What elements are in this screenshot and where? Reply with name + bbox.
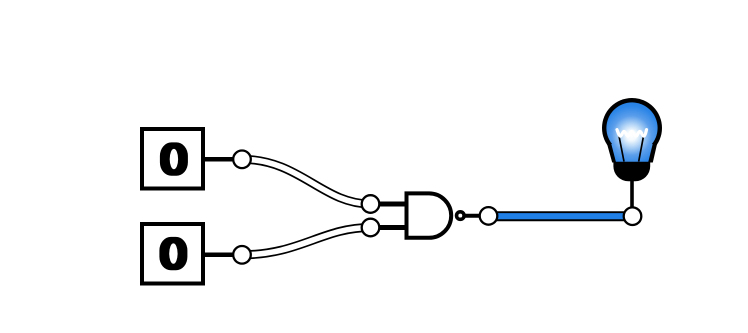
NAND gate U1 body xyxy=(407,193,452,237)
label "0" on switch B xyxy=(159,237,187,270)
output terminal stub of NAND xyxy=(465,214,489,218)
light bulb black silhouette (globe outline + collar) xyxy=(602,98,662,163)
NAND gate U1 input leg 1 xyxy=(371,202,408,207)
input switch A (toggle box, state 0) xyxy=(142,129,203,189)
NAND inversion bubble xyxy=(457,212,465,220)
wire W1: node A to NAND input 1 (state 0, hollow) xyxy=(242,159,371,204)
filament support leg left xyxy=(619,134,625,162)
terminal stub from switch B xyxy=(204,252,242,257)
filament coil (white squiggle) xyxy=(617,130,647,137)
NAND input terminal 2 xyxy=(362,219,380,237)
terminal stub from switch A xyxy=(204,157,242,162)
light bulb DS1: terminal stub down from base xyxy=(630,178,634,210)
NAND gate U1 input leg 2 xyxy=(371,225,408,230)
label "0" on switch A xyxy=(160,142,188,175)
NAND input terminal 1 xyxy=(362,195,380,213)
wire W2: node B to NAND input 2 (state 0, hollow) xyxy=(242,228,371,255)
connection node A xyxy=(233,151,251,169)
bulb base (black bowl) xyxy=(613,162,650,182)
input switch B (toggle box, state 0) xyxy=(142,224,203,284)
bulb connection node xyxy=(624,207,642,225)
filament support leg right xyxy=(639,134,644,162)
light bulb glass (lit, blue gradient) xyxy=(606,102,657,162)
wire W3: NAND output node to bulb node (state 1, energized blue) xyxy=(489,211,633,221)
connection node B xyxy=(233,246,251,264)
output connection node (after NAND) xyxy=(480,207,498,225)
